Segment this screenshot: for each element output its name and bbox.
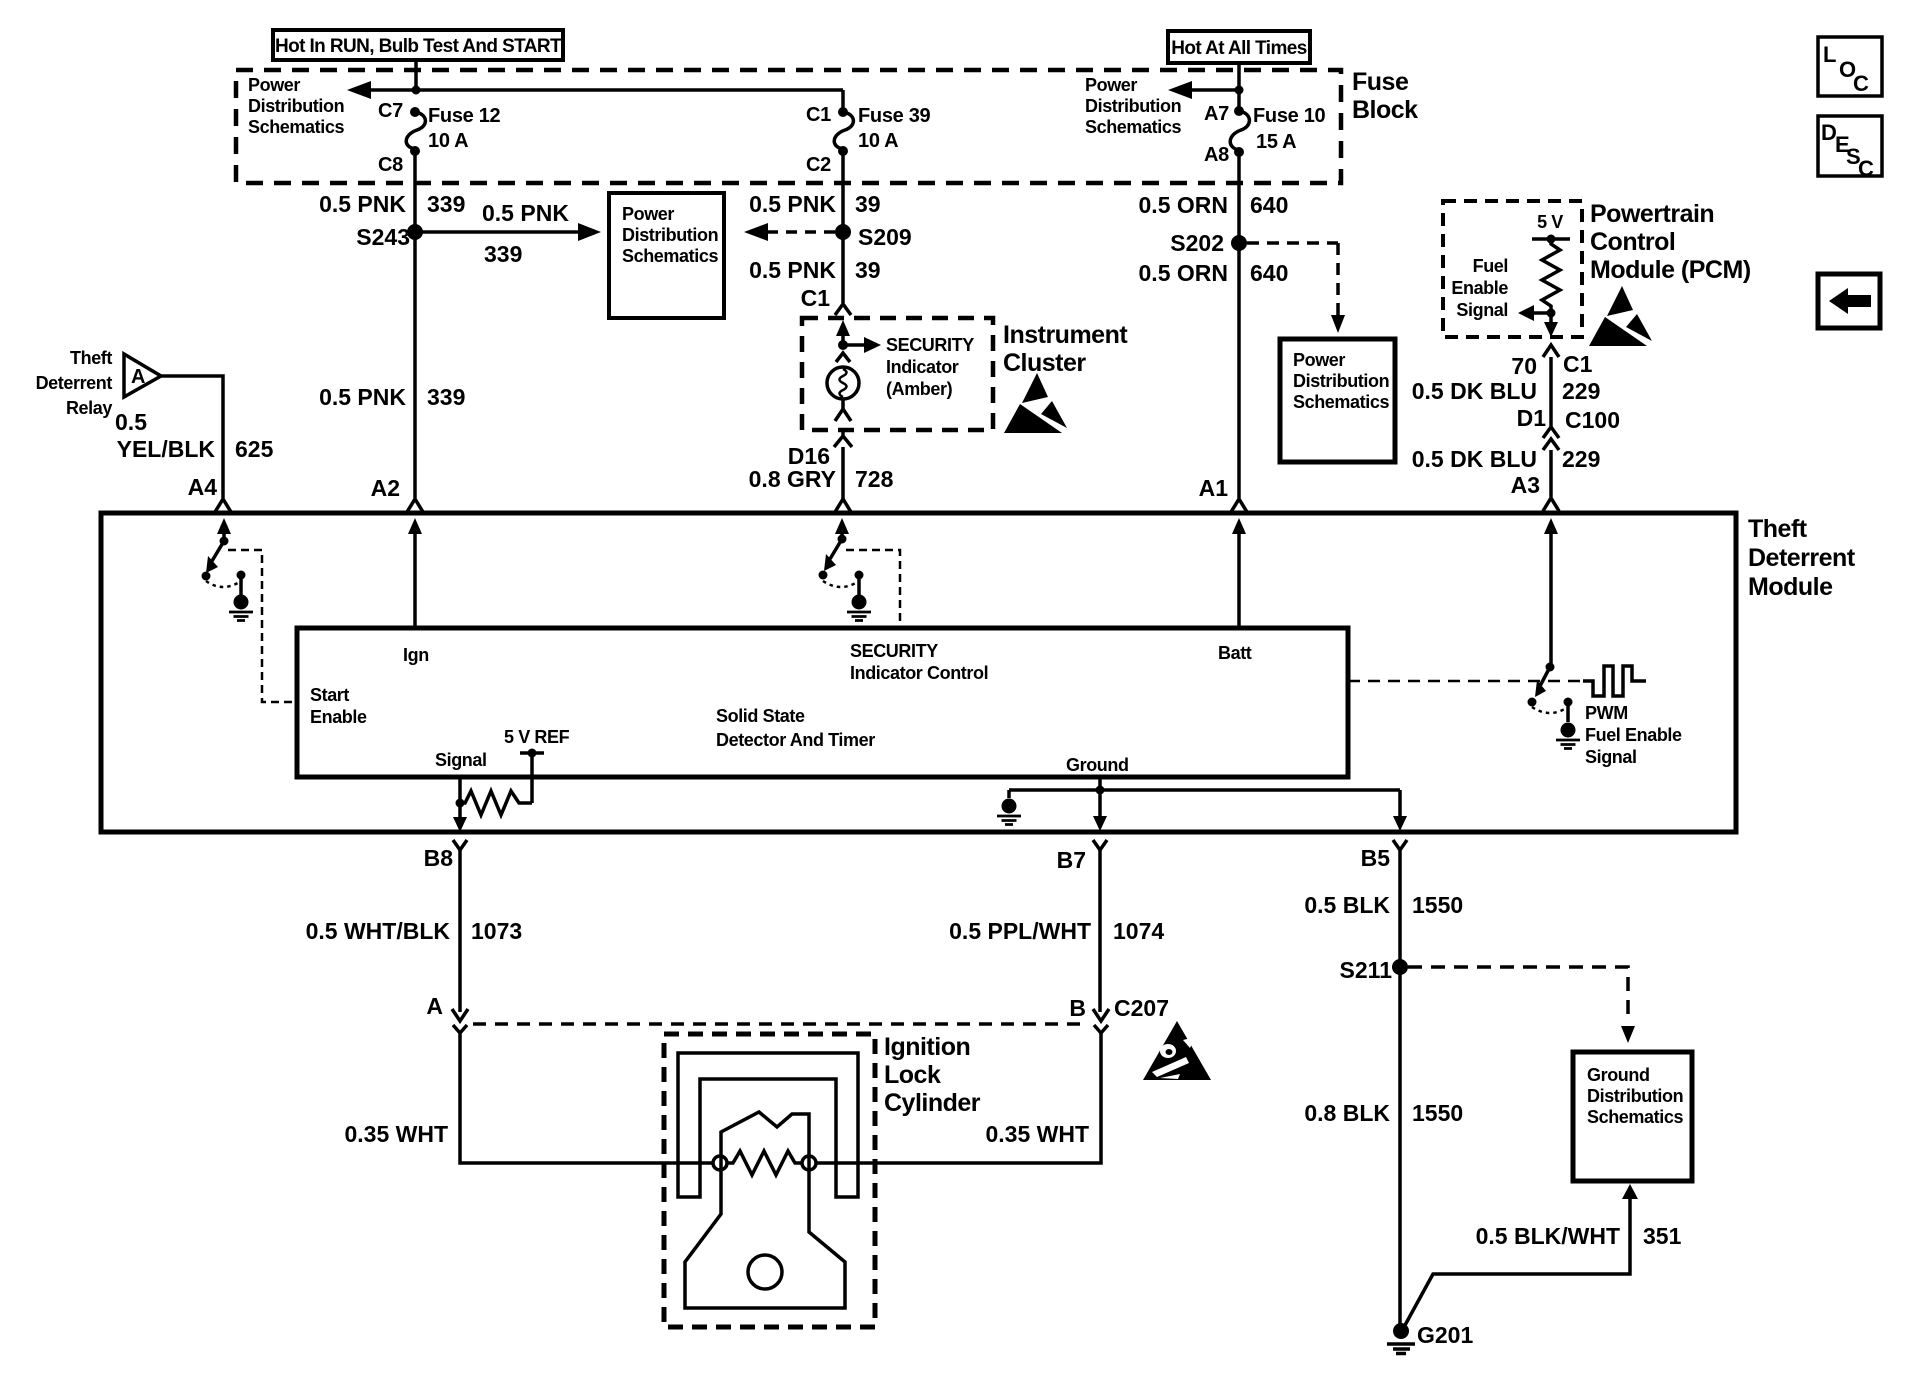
wire 229: PCM to C100	[1549, 357, 1553, 415]
svg-text:Detector And Timer: Detector And Timer	[716, 730, 875, 750]
svg-text:C1: C1	[1563, 351, 1593, 377]
dashed link: switch to Start Enable	[228, 550, 295, 702]
svg-text:B: B	[1069, 995, 1086, 1021]
svg-text:A: A	[131, 366, 145, 388]
connector Y below lamp	[835, 399, 851, 421]
svg-text:0.5 PNK: 0.5 PNK	[319, 384, 406, 410]
5V rail tap	[1532, 235, 1570, 244]
svg-text:39: 39	[855, 191, 881, 217]
fuse block dashed box	[236, 70, 1341, 183]
ground (start enable switch)	[229, 575, 253, 621]
svg-text:Enable: Enable	[1451, 278, 1508, 298]
chevron above lamp	[836, 353, 850, 362]
svg-text:5 V REF: 5 V REF	[504, 727, 570, 747]
svg-text:C: C	[1858, 156, 1874, 181]
svg-text:0.5 PNK: 0.5 PNK	[482, 200, 569, 226]
splice S211	[1340, 957, 1408, 983]
wire 229: C100 to A3	[1549, 450, 1553, 497]
wire 1073: B8 to C207-A	[458, 850, 462, 1012]
solid state detector inner box	[297, 628, 1348, 777]
svg-text:Theft: Theft	[1748, 515, 1808, 543]
wire label 0.5 BLK 1550	[1304, 892, 1463, 918]
svg-text:10 A: 10 A	[858, 130, 898, 152]
svg-text:1550: 1550	[1412, 1100, 1463, 1126]
svg-text:Fuse 10: Fuse 10	[1253, 105, 1326, 127]
terminal B7 chevron	[1057, 840, 1107, 873]
svg-text:Theft: Theft	[70, 348, 112, 368]
svg-text:339: 339	[427, 384, 465, 410]
svg-text:229: 229	[1562, 446, 1600, 472]
svg-text:10 A: 10 A	[428, 130, 468, 152]
svg-text:0.5 BLK/WHT: 0.5 BLK/WHT	[1476, 1223, 1620, 1249]
svg-text:0.5 PNK: 0.5 PNK	[319, 191, 406, 217]
theft deterrent module label	[1748, 515, 1856, 601]
terminal A3 chevron	[1511, 472, 1559, 511]
svg-text:SECURITY: SECURITY	[850, 641, 938, 661]
ESD symbol (PCM)	[1589, 286, 1652, 346]
power distribution schematics box (right)	[1280, 339, 1395, 462]
wire label 0.5 WHT/BLK 1073	[306, 918, 523, 944]
svg-text:5 V: 5 V	[1537, 212, 1563, 232]
value label Fuse 10 15 A	[1253, 105, 1326, 153]
margin icon: LOC box	[1818, 37, 1882, 96]
svg-text:D1: D1	[1517, 405, 1547, 431]
ground distribution schematics box	[1573, 1052, 1692, 1181]
svg-text:S209: S209	[858, 224, 912, 250]
switch: security indicator control	[819, 518, 864, 587]
terminal B8 chevron	[424, 840, 467, 871]
svg-text:Schematics: Schematics	[248, 117, 344, 137]
ignition lock cylinder label	[884, 1033, 981, 1117]
connector C1 (PCM side) chevron	[1511, 345, 1592, 379]
wire label 0.5 ORN 640 (upper)	[1139, 192, 1289, 218]
svg-text:C2: C2	[806, 154, 831, 176]
wire: Batt arrow inside module	[1232, 518, 1246, 628]
terminal B5 chevron	[1361, 840, 1407, 871]
chevron at module (security indicator control input)	[835, 499, 851, 512]
security indicator label	[886, 335, 974, 399]
svg-text:Power: Power	[248, 75, 300, 95]
svg-text:351: 351	[1643, 1223, 1682, 1249]
value label Fuse 39 10 A	[858, 105, 931, 152]
power distribution schematics label (right)	[1085, 75, 1181, 137]
svg-text:C7: C7	[378, 100, 403, 122]
svg-text:Ign: Ign	[403, 645, 429, 665]
wire 351: ground distribution to G201	[1404, 1184, 1638, 1327]
svg-text:640: 640	[1250, 260, 1288, 286]
connector C207 pin B	[1069, 995, 1169, 1033]
terminal A4 chevron	[188, 474, 231, 512]
svg-text:Distribution: Distribution	[1085, 96, 1181, 116]
wire 339: fuse C8 to S243	[413, 151, 417, 232]
svg-text:0.5: 0.5	[115, 409, 147, 435]
svg-text:B8: B8	[424, 845, 454, 871]
svg-text:L: L	[1823, 42, 1836, 67]
svg-text:Schematics: Schematics	[1587, 1107, 1683, 1127]
svg-text:S243: S243	[356, 224, 410, 250]
instrument cluster dashed box	[802, 318, 993, 430]
connector D16	[788, 430, 852, 469]
svg-text:(Amber): (Amber)	[886, 379, 953, 399]
svg-text:C: C	[1853, 71, 1869, 96]
fuse F39 10A (C1-C2)	[834, 107, 853, 156]
svg-text:C1: C1	[801, 285, 831, 311]
powertrain control module label	[1590, 200, 1751, 284]
junction dot in cluster	[838, 340, 848, 350]
theft deterrent module box	[101, 513, 1736, 832]
splice S202	[1170, 230, 1247, 256]
arrow: ground to B5	[1393, 790, 1407, 831]
connector C100 (D1)	[1517, 405, 1620, 450]
svg-text:Deterrent: Deterrent	[36, 373, 113, 393]
svg-text:Indicator: Indicator	[886, 357, 959, 377]
svg-text:1073: 1073	[471, 918, 522, 944]
svg-text:Instrument: Instrument	[1003, 321, 1128, 349]
svg-text:Powertrain: Powertrain	[1590, 200, 1714, 228]
svg-text:Fuel Enable: Fuel Enable	[1585, 725, 1682, 745]
svg-text:Control: Control	[1590, 228, 1675, 256]
ground (fuel enable switch)	[1556, 702, 1580, 749]
wire 640: fuse A8 to A1	[1237, 152, 1241, 498]
wire 0.35 WHT (left)	[460, 1033, 714, 1163]
svg-text:0.5 BLK: 0.5 BLK	[1304, 892, 1390, 918]
wire: S243 branch arrow to power distribution schematics	[415, 200, 601, 267]
wire: Hot In RUN feed down	[414, 60, 418, 90]
ground G201	[1387, 1322, 1473, 1354]
wire 1074: B7 to C207-B	[1098, 850, 1102, 1012]
svg-text:Fuel: Fuel	[1473, 256, 1508, 276]
svg-text:Batt: Batt	[1218, 643, 1252, 663]
wire: cluster feed arrow up	[836, 320, 850, 345]
arrow: ground to B7	[1093, 790, 1107, 831]
PCM dashed box	[1443, 201, 1582, 337]
svg-text:Relay: Relay	[66, 398, 112, 418]
svg-text:A1: A1	[1199, 475, 1229, 501]
svg-text:Fuse 12: Fuse 12	[428, 105, 501, 127]
svg-text:Signal: Signal	[1456, 300, 1508, 320]
dashed branch: S202 to power distribution box	[1247, 243, 1345, 333]
resistor (lock cylinder)	[713, 1151, 816, 1175]
svg-text:229: 229	[1562, 378, 1600, 404]
svg-text:A8: A8	[1204, 144, 1229, 166]
svg-text:0.35 WHT: 0.35 WHT	[985, 1121, 1089, 1147]
svg-text:640: 640	[1250, 192, 1288, 218]
wire: feed drop to fuse 39	[841, 90, 845, 112]
svg-text:Distribution: Distribution	[248, 96, 344, 116]
svg-text:0.35 WHT: 0.35 WHT	[344, 1121, 448, 1147]
svg-text:0.5 ORN: 0.5 ORN	[1139, 192, 1228, 218]
wire label 0.5 PPL/WHT 1074	[949, 918, 1164, 944]
svg-text:Module (PCM): Module (PCM)	[1590, 256, 1751, 284]
svg-text:S211: S211	[1340, 957, 1393, 983]
label box: Hot At All Times	[1168, 31, 1310, 63]
fuse block label	[1352, 68, 1418, 124]
svg-text:C207: C207	[1114, 995, 1169, 1021]
signal stub and node	[456, 777, 465, 818]
svg-text:70: 70	[1511, 353, 1537, 379]
wire 1550: S211 to G201	[1398, 967, 1402, 1325]
key symbol	[685, 1112, 845, 1308]
fuse F10 15A (A7-A8)	[1230, 106, 1249, 157]
wire: Ign arrow inside module	[408, 518, 422, 628]
ground symbol (module ground bus)	[997, 790, 1021, 825]
svg-text:0.8 GRY: 0.8 GRY	[749, 466, 836, 492]
svg-text:Ignition: Ignition	[884, 1033, 970, 1061]
svg-text:A2: A2	[371, 475, 400, 501]
svg-text:A7: A7	[1204, 103, 1229, 125]
dashed connector line C207	[473, 1022, 1088, 1026]
svg-text:SECURITY: SECURITY	[886, 335, 974, 355]
PWM fuel enable signal label	[1585, 703, 1682, 767]
wire: Hot At All Times feed down	[1237, 63, 1241, 90]
ESD symbol (C207)	[1143, 1021, 1211, 1080]
fuse F12 10A (C7-C8)	[406, 107, 425, 156]
wire label 0.5 PNK 39 (upper)	[749, 191, 881, 217]
ground (security switch)	[847, 575, 871, 621]
arrow to SECURITY text	[843, 337, 881, 353]
ESD symbol (instrument cluster)	[1004, 373, 1067, 433]
svg-text:0.5 ORN: 0.5 ORN	[1139, 260, 1228, 286]
svg-text:C8: C8	[378, 154, 403, 176]
power distribution schematics box (middle)	[609, 193, 724, 318]
svg-text:Indicator Control: Indicator Control	[850, 663, 988, 683]
theft deterrent relay	[36, 348, 161, 418]
svg-text:Hot At All Times: Hot At All Times	[1171, 38, 1306, 59]
wire label 0.8 BLK 1550	[1304, 1100, 1463, 1126]
svg-text:Fuse 39: Fuse 39	[858, 105, 931, 127]
inner label: Start Enable	[310, 685, 367, 727]
svg-text:Ground: Ground	[1066, 755, 1129, 775]
svg-text:0.5 PNK: 0.5 PNK	[749, 191, 836, 217]
wire label 0.5 DK BLU 229 (lower)	[1412, 446, 1601, 472]
svg-text:S202: S202	[1170, 230, 1224, 256]
resistor (signal to 5V REF)	[460, 791, 532, 815]
dashed link: security switch to inner box	[846, 550, 900, 626]
svg-text:Signal: Signal	[435, 750, 487, 770]
svg-text:Schematics: Schematics	[622, 246, 718, 266]
svg-text:Enable: Enable	[310, 707, 367, 727]
value label Fuse 12 10 A	[428, 105, 501, 152]
svg-text:Ground: Ground	[1587, 1065, 1650, 1085]
arrow down out of PCM	[1544, 313, 1558, 337]
svg-text:A4: A4	[188, 474, 218, 500]
svg-text:15 A: 15 A	[1256, 131, 1296, 153]
svg-text:339: 339	[427, 191, 465, 217]
margin icon: DESC box	[1818, 116, 1882, 181]
svg-text:339: 339	[484, 241, 522, 267]
wire label 0.5 DK BLU 229 (upper)	[1412, 378, 1601, 404]
svg-text:Hot In RUN, Bulb Test And STAR: Hot In RUN, Bulb Test And START	[275, 36, 562, 57]
svg-text:39: 39	[855, 257, 881, 283]
svg-text:0.5 PPL/WHT: 0.5 PPL/WHT	[949, 918, 1091, 944]
svg-text:1550: 1550	[1412, 892, 1463, 918]
wire 728: D16 to module	[841, 447, 845, 499]
wire: feed drop to fuse 10	[1237, 90, 1241, 111]
svg-text:0.5 WHT/BLK: 0.5 WHT/BLK	[306, 918, 451, 944]
wire label 0.5 PNK 339 (lower)	[319, 384, 465, 410]
wire 39: C2 to cluster connector C1	[841, 151, 845, 303]
svg-text:A: A	[426, 993, 443, 1019]
svg-text:Solid State: Solid State	[716, 706, 805, 726]
svg-text:625: 625	[235, 436, 274, 462]
wire label 0.8 GRY 728	[749, 466, 894, 492]
inner label: Solid State Detector And Timer	[716, 706, 875, 750]
svg-text:Power: Power	[1293, 350, 1345, 370]
inner label: SECURITY Indicator Control	[850, 641, 988, 683]
svg-text:Schematics: Schematics	[1085, 117, 1181, 137]
svg-text:0.5 PNK: 0.5 PNK	[749, 257, 836, 283]
arrow to Signal text	[1518, 305, 1551, 321]
svg-text:Power: Power	[622, 204, 674, 224]
svg-text:PWM: PWM	[1585, 703, 1628, 723]
svg-text:Distribution: Distribution	[1587, 1086, 1683, 1106]
terminal A1 chevron	[1199, 475, 1247, 512]
svg-text:Module: Module	[1748, 573, 1833, 601]
wire label 0.5 YEL/BLK 625	[115, 409, 274, 462]
junction at fuse 10 feed	[1235, 86, 1244, 95]
splice S209	[835, 224, 912, 250]
svg-text:Block: Block	[1352, 96, 1418, 124]
svg-text:B7: B7	[1057, 847, 1086, 873]
dashed link: inner box to fuel enable switch	[1348, 680, 1580, 683]
svg-text:728: 728	[855, 466, 894, 492]
splice S243	[356, 224, 423, 250]
wire 1550: B5 to S211	[1398, 850, 1402, 967]
instrument cluster label	[1003, 321, 1128, 377]
indicator lamp (amber)	[827, 367, 859, 399]
svg-text:C100: C100	[1565, 407, 1620, 433]
node: fuel enable signal	[1547, 309, 1556, 318]
arrow: signal to B8	[453, 817, 467, 832]
svg-text:0.5 DK BLU: 0.5 DK BLU	[1412, 446, 1537, 472]
svg-text:Signal: Signal	[1585, 747, 1637, 767]
wire label 0.5 ORN 640 (lower)	[1139, 260, 1289, 286]
svg-text:0.5 DK BLU: 0.5 DK BLU	[1412, 378, 1537, 404]
svg-text:Cluster: Cluster	[1003, 349, 1086, 377]
wire 625: relay to A4	[161, 376, 223, 498]
wire 0.35 WHT (right)	[816, 1033, 1101, 1163]
ignition lock cylinder dashed box	[664, 1034, 875, 1327]
wire label 0.5 PNK 39 (lower)	[749, 257, 881, 283]
PWM waveform symbol	[1583, 666, 1646, 696]
svg-text:Cylinder: Cylinder	[884, 1089, 981, 1117]
dashed branch: S211 to ground distribution box	[1408, 967, 1635, 1043]
svg-text:Schematics: Schematics	[1293, 392, 1389, 412]
switch: fuel enable (A3)	[1528, 518, 1573, 713]
svg-text:B5: B5	[1361, 845, 1391, 871]
svg-text:Power: Power	[1085, 75, 1137, 95]
power distribution schematics label (left)	[248, 75, 344, 137]
wire 339: S243 to A2	[413, 232, 417, 498]
svg-text:0.8 BLK: 0.8 BLK	[1304, 1100, 1390, 1126]
terminal A2 chevron	[371, 475, 423, 512]
svg-text:Start: Start	[310, 685, 349, 705]
svg-text:Distribution: Distribution	[1293, 371, 1389, 391]
svg-text:G201: G201	[1417, 1322, 1473, 1348]
5V REF tap	[520, 749, 544, 804]
connector C207 pin A	[426, 993, 468, 1033]
wire label 0.5 PNK 339 (upper)	[319, 191, 465, 217]
svg-text:1074: 1074	[1113, 918, 1164, 944]
lock cylinder housing	[678, 1053, 858, 1197]
label box: Hot In RUN, Bulb Test And START	[273, 30, 563, 60]
junction at fuse 12 feed	[412, 86, 421, 95]
svg-text:Fuse: Fuse	[1352, 68, 1409, 96]
wire: arrow to power distribution (right)	[1168, 81, 1239, 99]
ground bus inside module	[1009, 777, 1400, 795]
wire label 0.5 BLK/WHT 351	[1476, 1223, 1682, 1249]
svg-text:Deterrent: Deterrent	[1748, 544, 1856, 572]
key hole	[748, 1255, 782, 1289]
fuel enable signal label	[1451, 256, 1508, 320]
svg-text:YEL/BLK: YEL/BLK	[117, 436, 216, 462]
connector C1 (instrument cluster)	[801, 285, 851, 315]
svg-text:Lock: Lock	[884, 1061, 941, 1089]
dashed arrow: S209 to power distribution box	[744, 223, 835, 241]
resistor (PCM pull-up)	[1542, 239, 1560, 309]
svg-text:A3: A3	[1511, 472, 1540, 498]
wire: feed bus with arrow to power distribution (left)	[347, 81, 843, 99]
svg-text:C1: C1	[806, 104, 831, 126]
svg-text:Distribution: Distribution	[622, 225, 718, 245]
switch: start enable (A4 input)	[202, 518, 246, 587]
margin icon: back arrow box	[1818, 274, 1880, 328]
